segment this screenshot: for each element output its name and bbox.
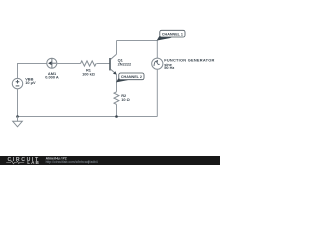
wire bottom horizontal bbox=[18, 116, 158, 118]
flag CHANNEL 2 bbox=[116, 73, 144, 82]
wire collector up bbox=[116, 41, 118, 55]
svg-text:2N2222: 2N2222 bbox=[118, 61, 132, 66]
wire top horizontal bbox=[117, 40, 158, 42]
svg-text:10 μV: 10 μV bbox=[25, 80, 36, 85]
wire R2 to bottom bbox=[116, 104, 118, 116]
wire R1 to base bbox=[97, 63, 110, 65]
svg-text:50 Hz: 50 Hz bbox=[164, 65, 174, 70]
CircuitLab logo bbox=[6, 157, 40, 165]
transistor Q1 2N2222 bbox=[110, 54, 132, 74]
footer bar bbox=[0, 156, 220, 165]
function generator V1 bbox=[152, 58, 215, 70]
resistor R1 bbox=[81, 61, 97, 76]
wire VBB bottom bbox=[17, 89, 19, 117]
svg-text:CHANNEL 2: CHANNEL 2 bbox=[121, 75, 142, 79]
wire top-left horizontal bbox=[17, 63, 47, 65]
svg-text:100 kΩ: 100 kΩ bbox=[82, 71, 95, 76]
voltage source VBB bbox=[12, 77, 36, 89]
wire emitter down bbox=[116, 75, 118, 92]
wire VBB top bbox=[17, 64, 19, 79]
svg-text:http://circuitlab.com/c/brbcad: http://circuitlab.com/c/brbcadjfadb4 bbox=[46, 160, 98, 164]
ground bbox=[13, 117, 23, 127]
svg-text:10 Ω: 10 Ω bbox=[121, 97, 130, 102]
wire function generator down bbox=[156, 69, 158, 116]
resistor R2 bbox=[114, 92, 130, 105]
wire ammeter to R1 bbox=[57, 63, 81, 65]
footer info text bbox=[46, 157, 98, 165]
wire down to function generator bbox=[156, 41, 158, 59]
junction dot VBB/bottom wire bbox=[16, 115, 19, 118]
junction dot R2/bottom wire bbox=[115, 115, 118, 118]
svg-text:LAB: LAB bbox=[27, 160, 40, 165]
ammeter AM1 bbox=[45, 58, 59, 79]
svg-text:0.000 A: 0.000 A bbox=[45, 75, 59, 80]
flag CHANNEL 1 bbox=[157, 30, 185, 40]
svg-text:CHANNEL 1: CHANNEL 1 bbox=[162, 32, 183, 36]
